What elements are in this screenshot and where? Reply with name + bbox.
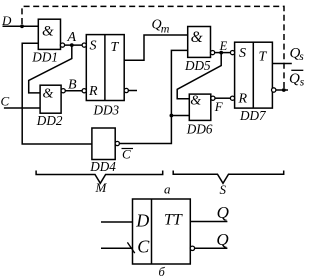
inverted output Q-bar of TT bbox=[190, 246, 227, 250]
latch DD7 bbox=[230, 42, 272, 123]
svg-text:TT: TT bbox=[164, 211, 183, 228]
svg-text:M: M bbox=[95, 180, 108, 195]
wire C input of TT bbox=[101, 247, 133, 249]
wire DD6 output node F to DD7 R bbox=[215, 97, 231, 99]
wire node E down to DD6 input 1 bbox=[177, 53, 221, 99]
inverted output stub of DD3 bbox=[124, 88, 137, 92]
node E junction dot bbox=[219, 51, 223, 55]
node Qm label bbox=[152, 18, 170, 36]
wire DD2 output node B to DD3 R bbox=[65, 90, 82, 92]
svg-text:&: & bbox=[191, 29, 203, 46]
svg-text:T: T bbox=[111, 40, 120, 55]
svg-text:б: б bbox=[159, 265, 166, 279]
svg-text:s: s bbox=[299, 51, 304, 63]
wire D input bbox=[3, 25, 39, 27]
svg-text:&: & bbox=[43, 87, 54, 102]
inverter DD4 bbox=[89, 128, 119, 174]
label b bbox=[159, 265, 166, 279]
label a bbox=[164, 182, 171, 197]
svg-text:A: A bbox=[67, 30, 77, 45]
node B label bbox=[68, 78, 77, 93]
node D input label bbox=[1, 13, 12, 28]
svg-text:E: E bbox=[219, 39, 228, 53]
wire DD7 Q output Qs bbox=[272, 63, 291, 65]
svg-text:R: R bbox=[88, 84, 98, 99]
svg-text:DD3: DD3 bbox=[93, 103, 120, 118]
node F label bbox=[214, 99, 224, 114]
node E label bbox=[219, 39, 228, 53]
wire DD5 output node E to DD7 S bbox=[215, 52, 231, 54]
svg-text:C: C bbox=[1, 94, 10, 109]
svg-text:S: S bbox=[90, 39, 97, 54]
svg-text:Q: Q bbox=[217, 203, 229, 222]
svg-text:S: S bbox=[220, 182, 227, 197]
gate DD6 bbox=[186, 93, 215, 136]
gate DD2 bbox=[36, 85, 66, 128]
svg-text:T: T bbox=[259, 50, 268, 65]
svg-text:&: & bbox=[42, 23, 54, 39]
svg-text:R: R bbox=[238, 92, 248, 107]
wire DD1 output to node A and DD3 S bbox=[65, 44, 83, 46]
wire node A to DD2 input 1 bbox=[29, 45, 72, 93]
svg-text:C: C bbox=[122, 147, 131, 162]
svg-text:DD6: DD6 bbox=[186, 122, 213, 137]
node A label bbox=[67, 30, 77, 45]
node Q label bbox=[217, 203, 229, 222]
svg-text:DD5: DD5 bbox=[184, 58, 211, 73]
svg-text:B: B bbox=[68, 78, 77, 93]
latch DD3 bbox=[82, 35, 124, 118]
svg-text:DD2: DD2 bbox=[36, 113, 63, 128]
node C-bar label bbox=[122, 147, 134, 162]
wire DD1 input 2 down across C to DD4 input bbox=[22, 43, 92, 144]
svg-text:m: m bbox=[161, 22, 170, 36]
brace S under slave stage bbox=[173, 171, 284, 184]
gate DD5 bbox=[184, 27, 215, 74]
node A junction dot bbox=[70, 43, 74, 47]
label S bbox=[220, 182, 227, 197]
node Qs label bbox=[290, 46, 305, 64]
svg-text:C: C bbox=[137, 237, 150, 257]
svg-text:s: s bbox=[300, 77, 305, 89]
dynamic input slash on C bbox=[127, 242, 134, 253]
svg-text:DD7: DD7 bbox=[239, 108, 267, 123]
wire Q output of TT bbox=[190, 221, 227, 223]
wire DD3 Q output up to Qm line to DD5 input 1 bbox=[124, 35, 188, 60]
node Q-bar label bbox=[216, 230, 228, 249]
node C input label bbox=[1, 94, 10, 109]
wire C-bar bus to DD6 input 2 bbox=[171, 115, 189, 117]
gate DD1 bbox=[31, 19, 64, 64]
svg-text:Q: Q bbox=[216, 230, 228, 249]
wire DD4 output C-bar to vertical bus bbox=[119, 50, 187, 143]
svg-text:Q: Q bbox=[289, 71, 300, 87]
brace M under master stage bbox=[36, 171, 163, 184]
svg-text:D: D bbox=[135, 211, 149, 231]
svg-text:&: & bbox=[190, 93, 201, 108]
svg-text:F: F bbox=[214, 99, 224, 114]
junction dot at D and dashed feedback bbox=[20, 24, 24, 28]
wire D input of TT bbox=[101, 221, 133, 223]
node Qs-bar label bbox=[289, 70, 305, 88]
svg-text:DD4: DD4 bbox=[89, 159, 116, 174]
junction dot C-bar bus to DD6 input 2 bbox=[170, 114, 174, 118]
svg-text:a: a bbox=[164, 182, 171, 197]
wire C input to DD2 bbox=[4, 107, 40, 109]
flip-flop TT (part b) bbox=[133, 199, 191, 264]
svg-text:S: S bbox=[239, 46, 246, 61]
label M bbox=[95, 180, 108, 195]
junction dot Qs-bar and dashed feedback bbox=[282, 88, 286, 92]
svg-text:DD1: DD1 bbox=[31, 49, 58, 64]
inverted output Qs-bar of DD7 bbox=[272, 88, 289, 92]
wire dashed feedback from Qs-bar to D input bbox=[22, 6, 284, 88]
